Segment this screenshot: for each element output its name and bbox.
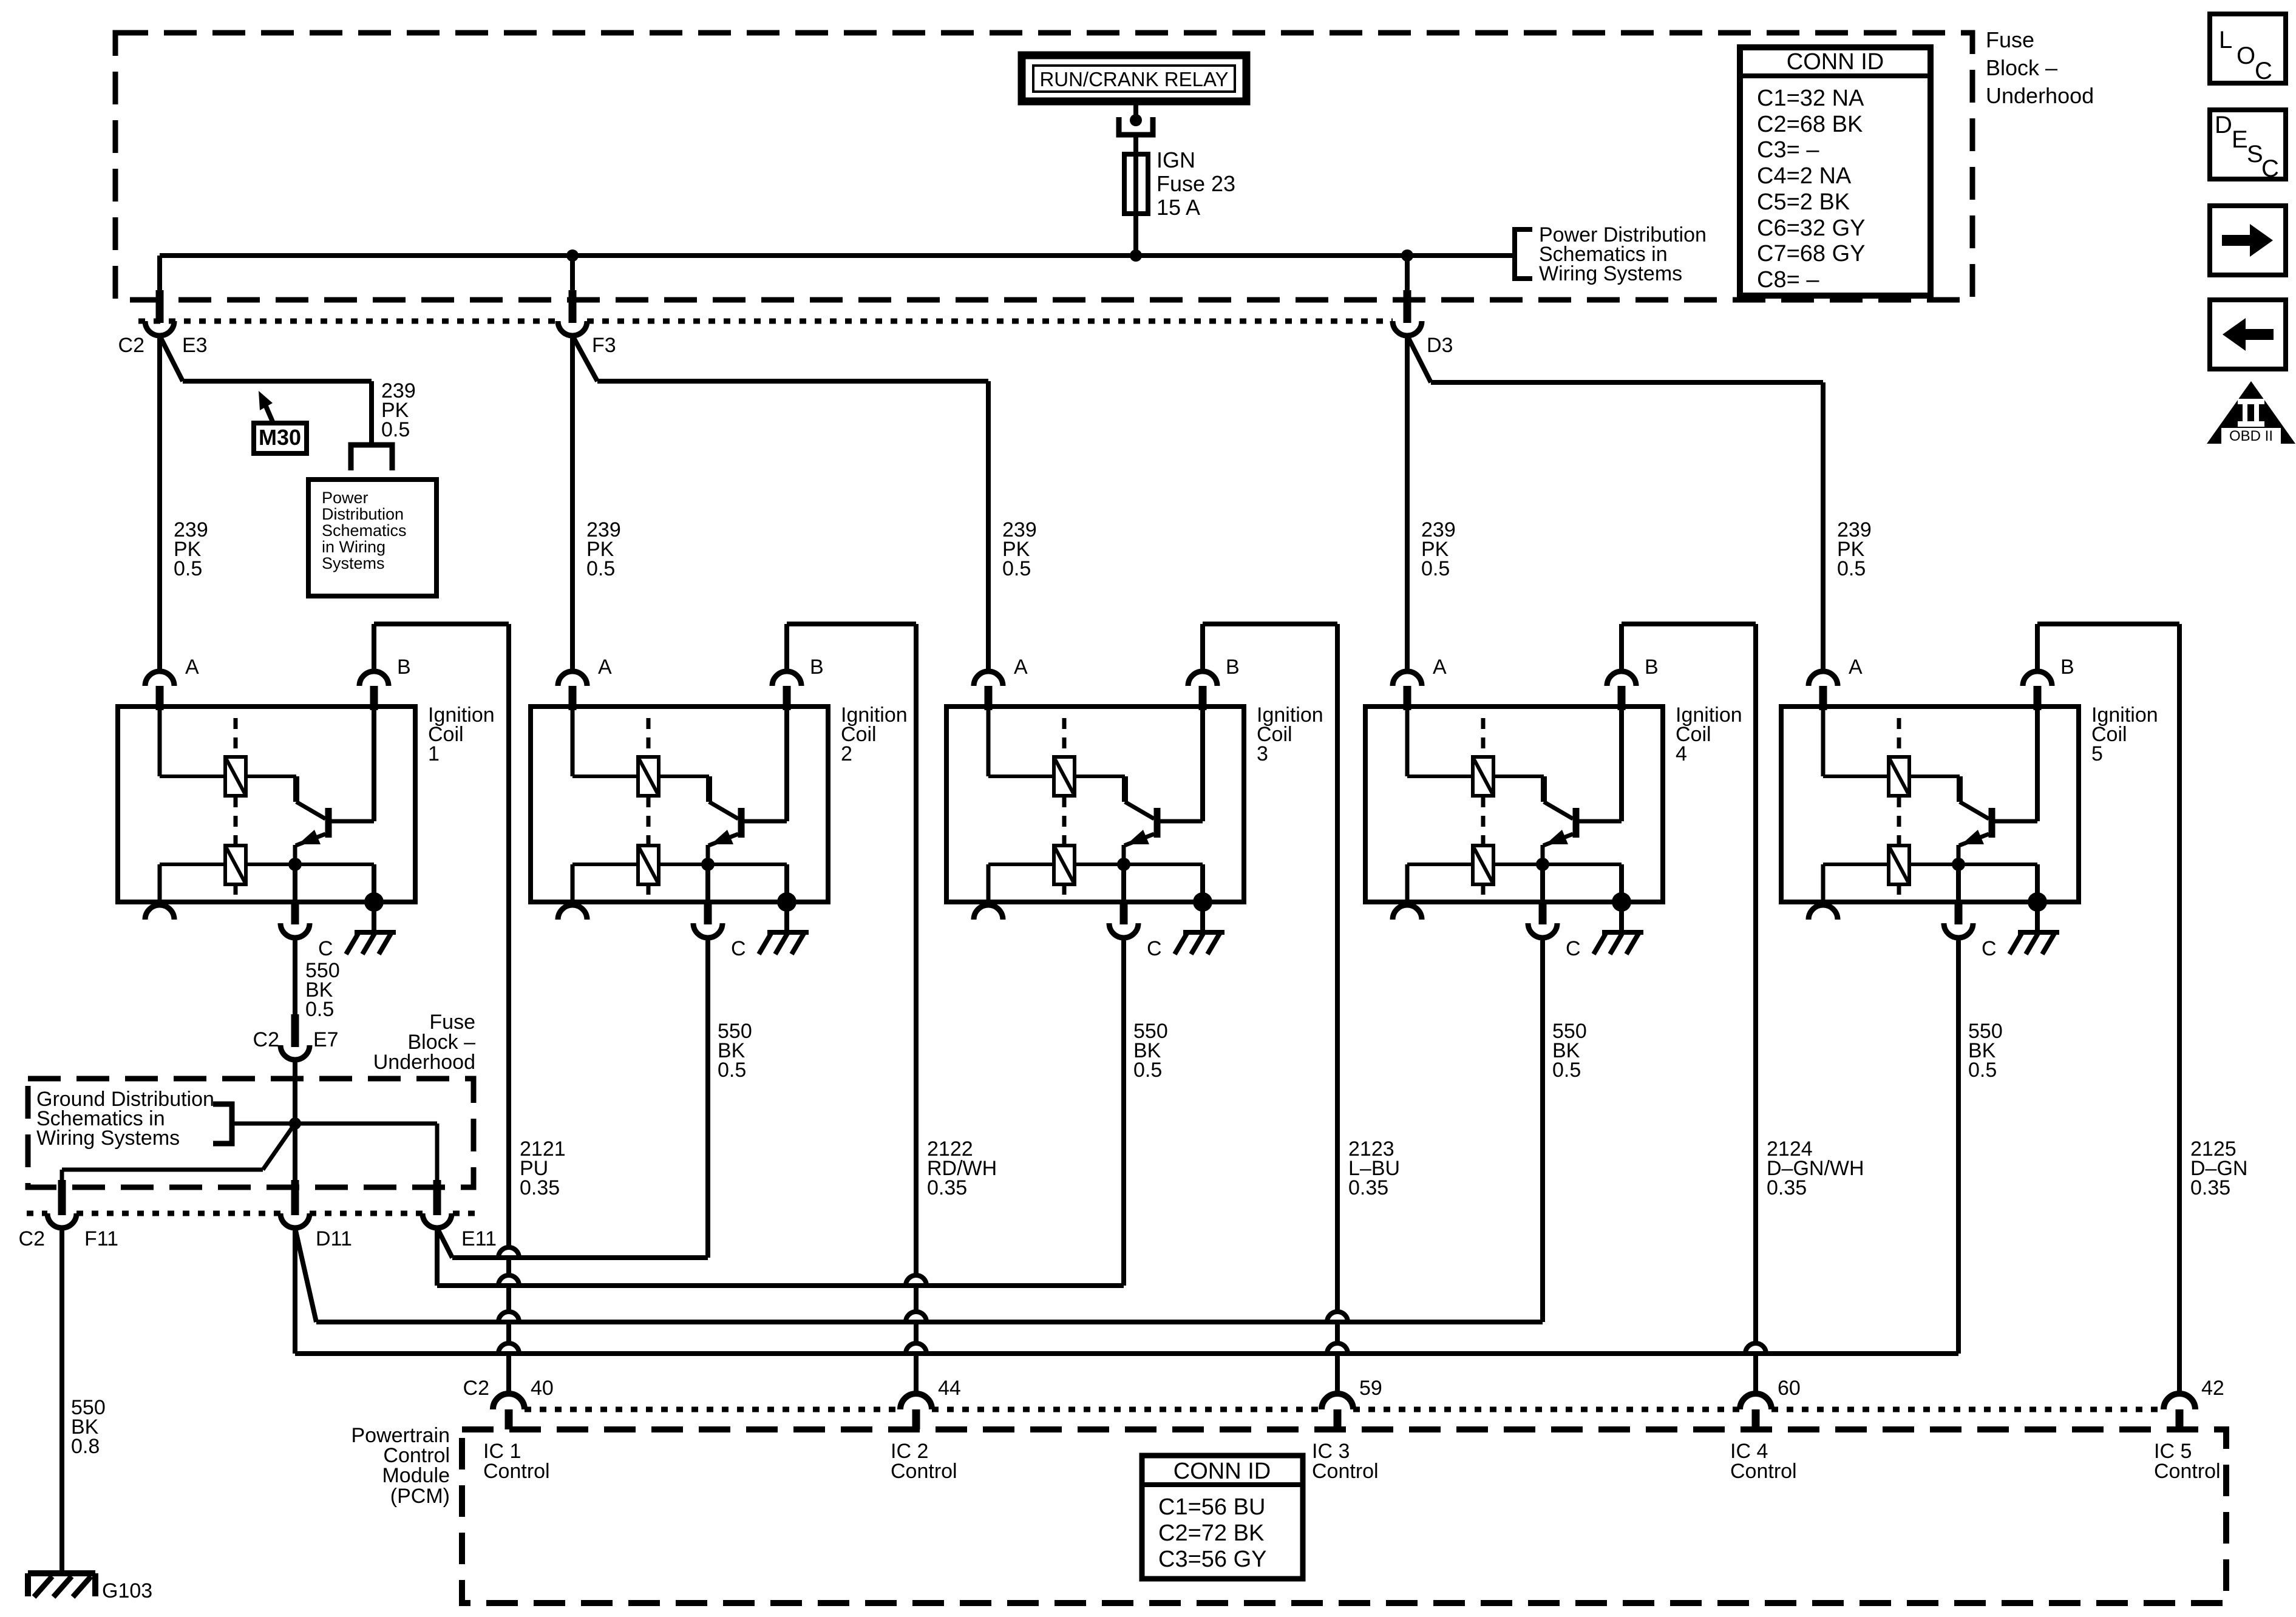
bracket power distribution note [1515,229,1532,279]
svg-text:L: L [2219,27,2232,53]
coil 1 secondary winding [293,845,297,864]
coil 5 primary winding [1821,704,1826,776]
icon LOC box [2210,14,2286,83]
svg-text:0.5: 0.5 [1968,1059,1997,1082]
wire F3 branch to coil 3 [597,379,988,384]
ignition coil 5 box [1781,707,2079,902]
svg-text:C3=56 GY: C3=56 GY [1158,1547,1267,1572]
wire coil 1 B pin jog [372,624,376,671]
svg-text:42: 42 [2201,1377,2224,1400]
svg-text:C2: C2 [253,1028,279,1051]
svg-text:M30: M30 [259,425,301,450]
wire E11 to coil 3 ground bus [435,1228,440,1286]
wire D3 branch diagonal [1407,336,1431,382]
coil 3 HV output connector [987,864,991,904]
coil 2 pin B connector [772,671,801,686]
svg-text:3: 3 [1257,742,1268,765]
svg-text:B: B [1226,656,1240,679]
ignition coil 3 box [946,707,1244,902]
coil 1 core dashed [234,718,238,756]
svg-text:D3: D3 [1427,334,1453,357]
ground chassis coil 5 [2018,930,2059,935]
svg-text:F3: F3 [592,334,616,357]
wire coil 3 B pin jog [1200,624,1205,671]
svg-text:A: A [1849,656,1863,679]
svg-text:Systems: Systems [322,554,385,572]
coil 5 HV output connector [1821,864,1826,904]
svg-text:F11: F11 [84,1227,118,1250]
svg-text:Schematics: Schematics [322,521,407,540]
svg-text:Distribution: Distribution [322,505,404,523]
svg-text:Module: Module [382,1464,450,1487]
wire coil 3 feed drop [986,381,991,673]
wire relay to fuse [1133,135,1138,257]
wire 239 PK 0.5 stub [369,381,374,445]
connector C2 F11 [58,1180,66,1215]
wire IC 4 control 2124 [1753,624,1758,1343]
svg-text:A: A [598,656,612,679]
coil 3 pin A connector [974,671,1003,686]
coil 4 internal ground node [1612,892,1631,912]
node fuse junction [1130,249,1142,262]
coil 4 pin A connector [1393,671,1422,686]
svg-text:C: C [1566,937,1581,960]
coil 1 pin C connector [293,864,297,903]
svg-text:E7: E7 [313,1028,339,1051]
svg-text:0.35: 0.35 [2190,1176,2230,1199]
node D3 junction [1401,249,1413,262]
svg-text:40: 40 [531,1377,554,1400]
table CONN ID fuse block [1740,47,1931,296]
wire 550 BK coil 2 [705,937,710,1258]
connector C2 pin 42 PCM [2164,1394,2195,1409]
svg-text:15 A: 15 A [1156,195,1200,220]
wire ground branch to F11 diagonal [263,1124,295,1170]
node bus/E3 corner [157,256,162,291]
svg-text:in Wiring: in Wiring [322,538,385,556]
svg-text:Wiring Systems: Wiring Systems [1539,262,1682,285]
wire D11 to coil 5 ground bus [293,1228,297,1354]
coil 1 pin A connector [145,671,174,686]
coil 3 primary winding [987,704,991,776]
transistor Q3 [1122,776,1128,802]
coil 5 internal ground node [2028,892,2047,912]
connector C2 E11 [433,1180,441,1215]
connector C2 pin 60 PCM [1740,1394,1771,1409]
coil 4 HV output connector [1405,864,1410,904]
coil 4 pin B connector [1607,671,1636,686]
connector C2 E3 [156,290,164,323]
relay connector staple [1119,117,1153,135]
svg-text:(PCM): (PCM) [390,1485,450,1508]
svg-text:RUN/CRANK RELAY: RUN/CRANK RELAY [1039,68,1228,90]
svg-text:A: A [185,656,199,679]
connector C2 pin 40 PCM [493,1394,525,1409]
coil 4 secondary winding [1541,845,1545,864]
note box power distribution schematics [308,480,436,596]
icon back arrow box [2210,300,2286,369]
svg-text:0.5: 0.5 [1002,557,1031,580]
connector C2 pin 59 PCM [1322,1394,1353,1409]
svg-text:C2=72 BK: C2=72 BK [1158,1520,1264,1546]
svg-text:Block –: Block – [1986,55,2057,80]
svg-text:0.8: 0.8 [71,1435,100,1458]
wire relay output [1133,101,1138,119]
bracket ground distribution note [213,1104,232,1144]
ground chassis coil 1 [355,930,396,935]
coil 2 pin C connector [705,864,710,903]
svg-text:0.5: 0.5 [1552,1059,1581,1082]
svg-text:G103: G103 [102,1579,152,1602]
PCM dashed box [462,1429,2226,1603]
wire D11 to coil 4 ground bus [295,1228,316,1322]
svg-text:0.35: 0.35 [1767,1176,1807,1199]
connector C2 pin 44 PCM [900,1394,932,1409]
splice M30 arrow [263,401,273,423]
icon DESC box [2210,110,2286,179]
coil 5 pin A connector [1809,671,1838,686]
wire D3 branch to coil 5 [1431,380,1823,385]
relay terminal junction [1130,114,1142,126]
svg-text:0.5: 0.5 [586,557,615,580]
svg-text:0.35: 0.35 [520,1176,560,1199]
svg-text:44: 44 [938,1377,961,1400]
wire E11 to coil 2 ground bus [437,1228,452,1258]
svg-text:Fuse 23: Fuse 23 [1156,171,1235,196]
transistor Q1 [293,776,299,802]
svg-text:Control: Control [1730,1460,1797,1483]
svg-text:D11: D11 [316,1227,352,1250]
wire 239 PK feed coil 2 [570,336,575,673]
wire IC 2 control 2122 [914,624,919,1275]
svg-text:C7=68 GY: C7=68 GY [1757,241,1866,266]
coil 1 primary winding [158,704,162,776]
svg-text:E3: E3 [182,334,208,357]
icon OBD II triangle [2207,381,2295,444]
coil 4 core dashed [1481,718,1486,756]
coil 1 HV output connector [158,864,162,904]
wire 550 BK coil 3 [1121,937,1126,1286]
relay box RUN/CRANK RELAY [1022,55,1246,101]
svg-text:4: 4 [1676,742,1687,765]
ground G103 [28,1570,95,1576]
svg-text:Power: Power [322,489,369,507]
coil 5 core dashed [1897,718,1901,756]
svg-text:B: B [2060,656,2074,679]
svg-text:Control: Control [891,1460,957,1483]
coil 2 internal ground node [777,892,796,912]
coil 5 secondary winding [1957,845,1961,864]
coil 2 secondary winding [706,845,710,864]
svg-text:C2=68 BK: C2=68 BK [1757,112,1863,137]
svg-text:0.5: 0.5 [1133,1059,1162,1082]
connector C2 E7 [291,1014,299,1047]
ignition coil 1 box [118,707,415,902]
svg-text:0.5: 0.5 [718,1059,746,1082]
coil 1 internal ground node [364,892,384,912]
wire bus drop to F3 [570,256,575,291]
svg-text:D: D [2215,112,2232,138]
wire coil 5 feed drop [1821,382,1826,673]
svg-text:B: B [397,656,411,679]
coil 3 secondary winding [1122,845,1126,864]
svg-text:C6=32 GY: C6=32 GY [1757,215,1866,241]
connector C2 D3 [1404,290,1411,323]
connector C2 D11 [291,1180,299,1215]
ignition coil 2 box [531,707,828,902]
svg-text:S: S [2247,141,2263,168]
wire bus drop to D3 [1405,256,1410,291]
ground chassis coil 3 [1183,930,1224,935]
wire E3 branch diagonal [160,336,183,381]
coil 3 pin C connector [1121,864,1126,903]
svg-text:B: B [1645,656,1659,679]
wire 550 BK coil 1 [293,937,297,1014]
svg-text:0.35: 0.35 [1348,1176,1388,1199]
svg-text:OBD II: OBD II [2229,428,2273,444]
dotted connector row C2 middle [27,1211,47,1216]
svg-text:C1=32 NA: C1=32 NA [1757,86,1864,111]
svg-text:Control: Control [2154,1460,2221,1483]
svg-text:C3= –: C3= – [1757,137,1819,163]
svg-text:0.5: 0.5 [1837,557,1866,580]
svg-text:C: C [1147,937,1162,960]
fuse block underhood lower dashed box [28,1079,474,1187]
ignition coil 4 box [1365,707,1663,902]
svg-text:59: 59 [1359,1377,1382,1400]
svg-text:C2: C2 [118,334,144,357]
svg-text:2: 2 [841,742,852,765]
transistor Q5 [1957,776,1963,802]
wire coil 5 B pin jog [2035,624,2040,671]
node ground junction E7 [289,1117,301,1130]
svg-text:0.5: 0.5 [1421,557,1450,580]
coil 4 pin C connector [1540,864,1545,903]
svg-text:1: 1 [428,742,440,765]
coil 2 core dashed [647,718,651,756]
svg-text:CONN ID: CONN ID [1787,49,1884,75]
svg-text:Wiring Systems: Wiring Systems [36,1127,180,1150]
wire ground distribution to E11 [232,1122,437,1126]
svg-text:0.5: 0.5 [174,557,202,580]
svg-text:C5=2 BK: C5=2 BK [1757,189,1850,215]
svg-text:C1=56 BU: C1=56 BU [1158,1494,1265,1520]
svg-text:O: O [2237,42,2255,69]
icon forward arrow box [2210,206,2286,275]
wire main ignition feed bus [160,253,1515,258]
transistor Q2 [706,776,712,802]
svg-text:0.35: 0.35 [927,1176,967,1199]
node F3 junction [566,249,579,262]
dotted connector row C2 PCM [525,1407,900,1412]
coil 3 pin B connector [1188,671,1217,686]
fuse block underhood dashed box [115,33,1972,300]
wire IC 1 control 2121 [506,624,511,1247]
svg-text:C4=2 NA: C4=2 NA [1757,163,1852,189]
svg-text:A: A [1014,656,1028,679]
svg-text:0.5: 0.5 [381,418,410,441]
splice label M30 [254,423,307,453]
svg-text:C: C [731,937,746,960]
coil 3 internal ground node [1193,892,1212,912]
coil 2 primary winding [571,704,575,776]
svg-text:B: B [810,656,824,679]
table CONN ID PCM [1142,1456,1303,1579]
coil 2 pin A connector [558,671,587,686]
coil 2 HV output connector [571,864,575,904]
svg-text:C: C [1982,937,1997,960]
svg-text:E11: E11 [461,1227,497,1250]
svg-text:C: C [2255,58,2272,84]
svg-text:A: A [1433,656,1447,679]
coil 1 pin B connector [359,671,389,686]
svg-text:C: C [318,937,333,960]
wire 550 BK coil 4 [1540,937,1545,1322]
wire 550 BK coil 5 [1956,937,1961,1354]
svg-text:C2: C2 [463,1377,489,1400]
coil 3 core dashed [1062,718,1067,756]
wire 239 PK feed coil 4 [1405,336,1410,673]
svg-text:5: 5 [2091,742,2103,765]
wire IC 5 control 2125 [2177,624,2182,1395]
wire E3 branch horizontal [183,379,372,384]
wire coil 2 B pin jog [784,624,789,671]
dotted connector row C2 top [138,319,558,324]
svg-text:E: E [2232,126,2248,153]
svg-text:0.5: 0.5 [305,998,334,1021]
connector clip to note box [351,445,392,470]
svg-text:Control: Control [1312,1460,1379,1483]
transistor Q4 [1541,776,1547,802]
svg-text:CONN ID: CONN ID [1173,1459,1271,1484]
wire 550 BK 0.8 to G103 [59,1228,64,1573]
svg-text:Underhood: Underhood [373,1051,475,1074]
connector C2 F3 [569,290,577,323]
wire IC 3 control 2123 [1335,624,1340,1312]
svg-text:C8= –: C8= – [1757,267,1819,293]
svg-text:C2: C2 [19,1227,45,1250]
wire coil 4 B pin jog [1619,624,1624,671]
svg-text:Underhood: Underhood [1986,83,2094,108]
svg-text:Fuse: Fuse [1986,27,2034,52]
ground chassis coil 4 [1602,930,1643,935]
coil 5 pin C connector [1956,864,1961,903]
wire F3 branch diagonal [572,336,597,381]
wire 239 PK feed coil 1 [157,336,162,673]
fuse IGN Fuse 23 15A [1124,154,1148,214]
svg-text:60: 60 [1778,1377,1801,1400]
svg-text:Control: Control [483,1460,550,1483]
svg-text:C: C [2261,155,2279,182]
ground chassis coil 2 [767,930,809,935]
wire E7 down to D11 [293,1060,297,1180]
coil 4 primary winding [1405,704,1410,776]
coil 5 pin B connector [2023,671,2052,686]
svg-text:IGN: IGN [1156,147,1195,172]
